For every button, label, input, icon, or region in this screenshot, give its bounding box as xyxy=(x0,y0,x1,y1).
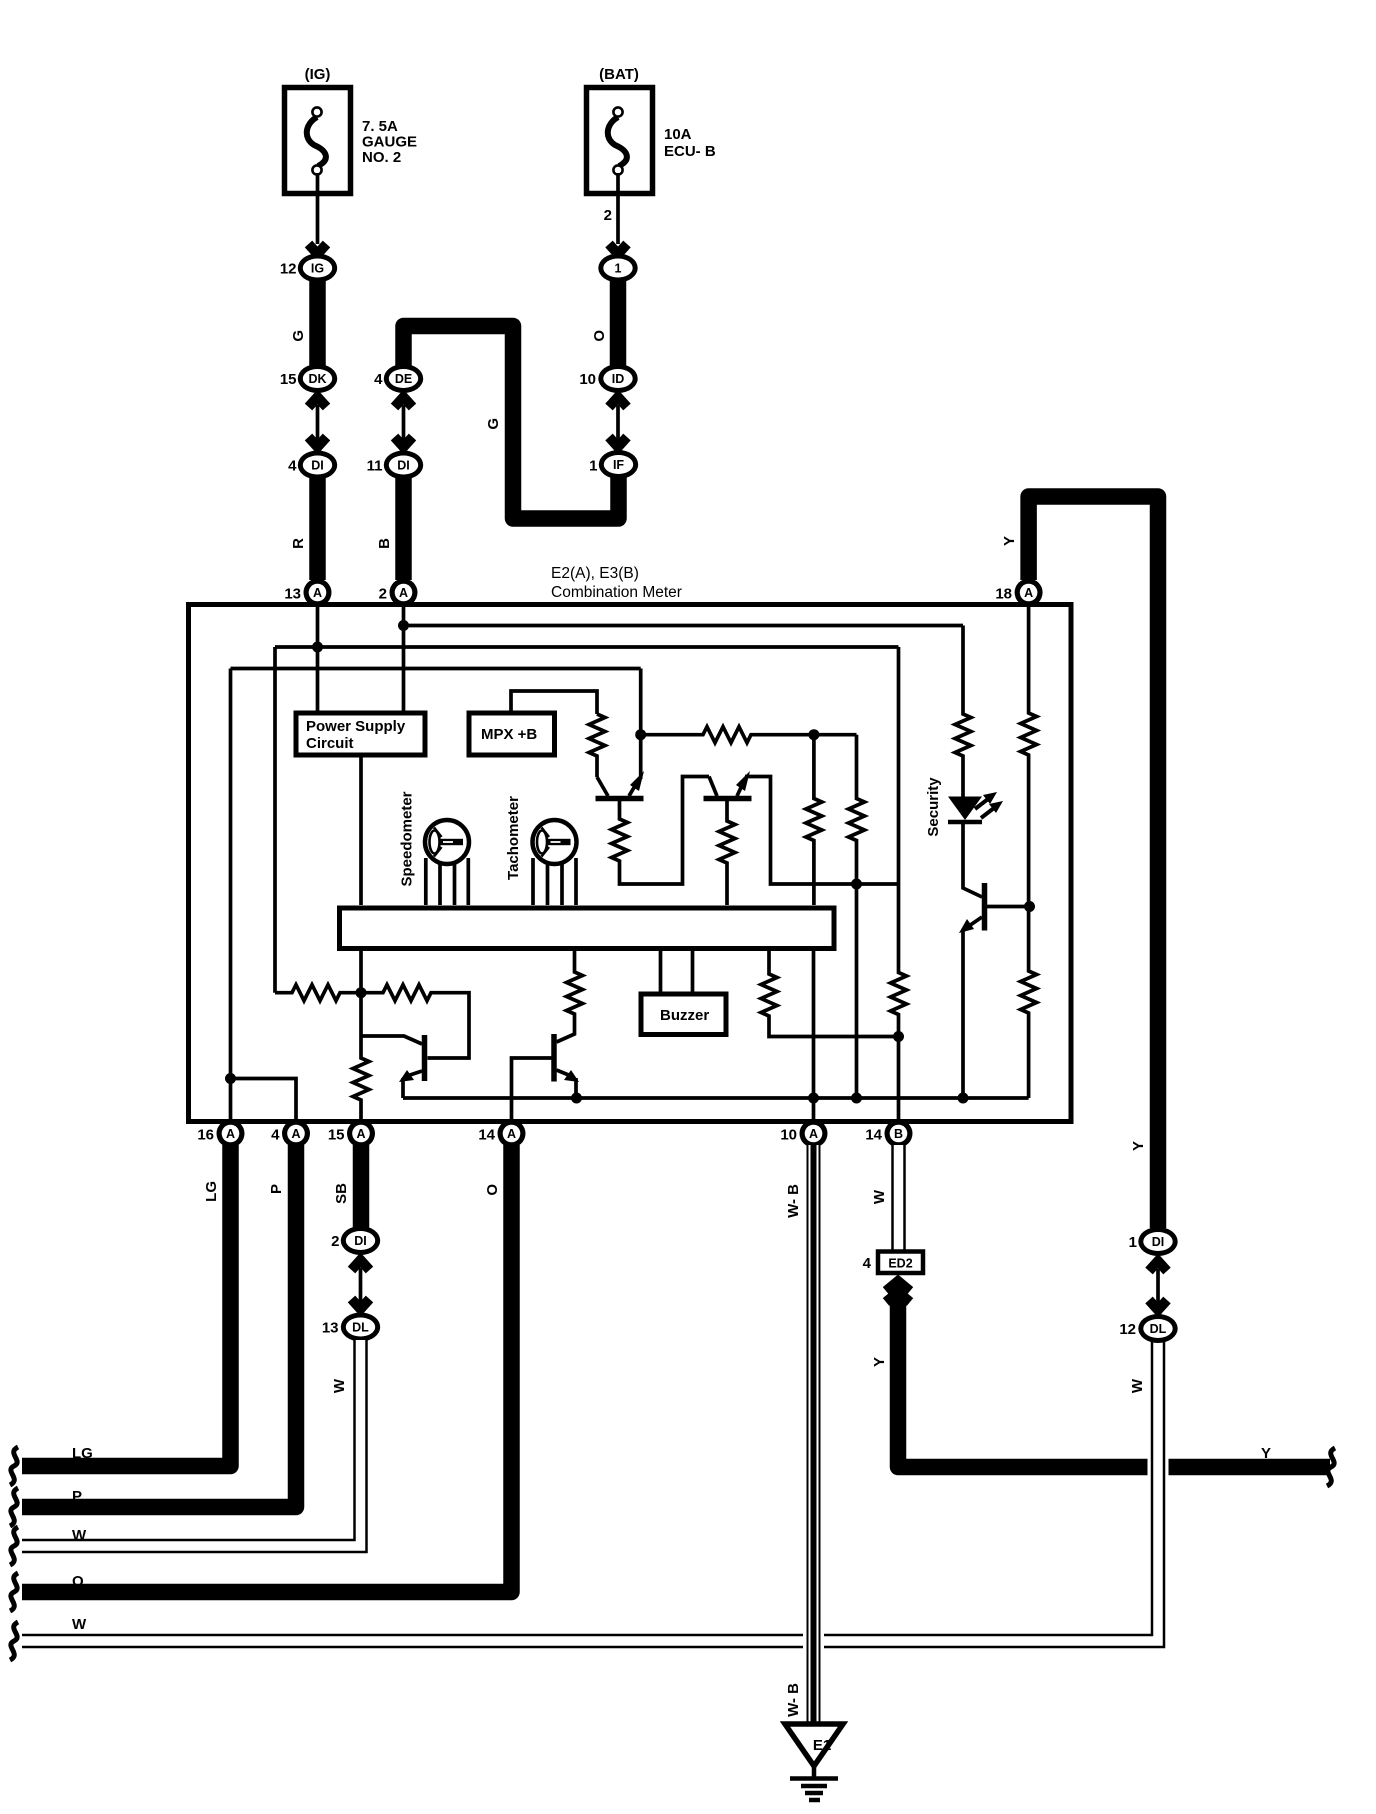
svg-text:DL: DL xyxy=(1150,1322,1167,1336)
connector DI pin 11 xyxy=(367,451,424,480)
connector A pin 18 xyxy=(995,579,1042,607)
wire left branch down to resistor row xyxy=(273,647,277,993)
svg-text:1: 1 xyxy=(589,458,597,475)
resistor R10 pin14B chain xyxy=(891,647,907,1121)
wire SB : pin15 to DI xyxy=(353,1145,370,1228)
white gap for W-B over W crossing xyxy=(803,1629,824,1653)
node pin13 junction xyxy=(312,642,323,653)
svg-text:2: 2 xyxy=(379,586,387,603)
svg-text:IG: IG xyxy=(311,262,324,276)
svg-text:7. 5A: 7. 5A xyxy=(362,118,398,135)
svg-text:(BAT): (BAT) xyxy=(599,66,639,83)
white gap for W over Y crossing xyxy=(1148,1456,1169,1478)
wire Y : ED2 down to harness right xyxy=(898,1298,1330,1467)
resistor R5 Q1 base chain to Q2 collector xyxy=(612,777,710,885)
wire O : 1 to ID xyxy=(610,280,627,366)
svg-text:MPX +B: MPX +B xyxy=(481,726,537,743)
MPX +B box U2 xyxy=(469,713,555,755)
svg-text:W: W xyxy=(72,1527,87,1544)
wire net IG horizontal to pin14B branch xyxy=(275,645,899,649)
resistor R2 horizontal xyxy=(641,727,857,743)
node R4 at emitter line xyxy=(851,879,862,890)
wire net B+ horizontal to security branch xyxy=(404,624,964,628)
svg-text:A: A xyxy=(291,1127,300,1141)
wire G : IG to DK xyxy=(309,280,326,366)
connector A pin 10 xyxy=(780,1120,827,1148)
svg-text:2: 2 xyxy=(331,1233,339,1250)
connector DL pin 12 xyxy=(1119,1314,1177,1343)
harness break squiggle LG xyxy=(10,1447,18,1485)
svg-text:1: 1 xyxy=(1129,1234,1137,1251)
svg-text:A: A xyxy=(399,586,408,600)
svg-text:Power Supply: Power Supply xyxy=(306,718,406,735)
svg-text:O: O xyxy=(484,1184,501,1196)
node R4 at ground net xyxy=(851,1093,862,1104)
wire LED to Q3 xyxy=(963,822,982,897)
wire LG : pin16 to harness xyxy=(22,1145,231,1466)
wire R : DI to meter pin 13 xyxy=(309,477,326,580)
wire MPX +B to resistor R1 xyxy=(511,691,597,714)
wire ID to IF with arrows xyxy=(609,397,627,447)
svg-text:Combination Meter: Combination Meter xyxy=(551,584,682,601)
svg-text:13: 13 xyxy=(284,586,301,603)
node pin2 junction xyxy=(398,620,409,631)
wire O : pin14 to harness xyxy=(22,1145,512,1592)
resistor R8 R9 pin18 chain xyxy=(1021,604,1037,1098)
svg-text:E2(A), E3(B): E2(A), E3(B) xyxy=(551,565,639,582)
resistor R4 with wire down to ground net xyxy=(849,735,865,1098)
svg-text:10: 10 xyxy=(780,1127,797,1144)
svg-text:GAUGE: GAUGE xyxy=(362,134,417,151)
ground E1 xyxy=(785,1724,843,1800)
svg-text:LG: LG xyxy=(203,1181,220,1202)
node Q1 emitter junction xyxy=(635,729,646,740)
svg-text:A: A xyxy=(809,1127,818,1141)
svg-text:NO. 2: NO. 2 xyxy=(362,149,401,166)
wire W : pin14B to ED2 xyxy=(891,1145,906,1251)
transistor Q5 xyxy=(512,951,583,1121)
svg-text:A: A xyxy=(1024,586,1033,600)
resistor R11 right of buzzer xyxy=(761,951,899,1037)
buzzer xyxy=(641,951,726,1035)
wire Q3 emitter down xyxy=(961,930,965,1098)
arrow into ED2 xyxy=(886,1281,910,1302)
svg-text:SB: SB xyxy=(333,1183,350,1204)
svg-text:DL: DL xyxy=(352,1321,369,1335)
connector A pin 16 xyxy=(197,1120,244,1148)
svg-text:P: P xyxy=(72,1488,82,1505)
connector DI pin 1 xyxy=(1129,1227,1178,1256)
svg-text:W- B: W- B xyxy=(785,1683,802,1717)
svg-text:A: A xyxy=(313,586,322,600)
harness break squiggle Y right xyxy=(1327,1448,1335,1486)
connector A pin 14 xyxy=(478,1120,525,1148)
svg-text:15: 15 xyxy=(328,1127,345,1144)
wire Q2 emitter to pin14B riser xyxy=(745,777,899,885)
svg-text:DE: DE xyxy=(395,372,412,386)
gauge tachometer xyxy=(533,820,577,905)
svg-text:10: 10 xyxy=(579,371,596,388)
connector IF pin 1 xyxy=(589,450,638,479)
svg-text:Circuit: Circuit xyxy=(306,735,354,752)
wire fuse to connector IG xyxy=(316,173,320,244)
wire DI to DL with arrows xyxy=(1149,1261,1167,1310)
svg-text:1: 1 xyxy=(615,262,622,276)
wire P : pin4 to harness xyxy=(22,1145,296,1507)
LED security xyxy=(948,792,1003,822)
wire branch to pin4 xyxy=(231,1079,297,1122)
svg-text:W: W xyxy=(331,1378,348,1393)
wire pin13 into power supply circuit xyxy=(316,604,320,711)
wire W : DL13 to harness xyxy=(22,1340,361,1546)
connector ED2 pin 4 xyxy=(863,1252,923,1274)
transistor Q2 xyxy=(704,771,752,799)
wire Y : meter pin 18 up and over to DI xyxy=(1029,497,1158,1229)
svg-text:A: A xyxy=(226,1127,235,1141)
wire bus bar to pin10 xyxy=(812,951,816,1121)
wire DI to DL with arrows xyxy=(352,1260,370,1309)
svg-text:Y: Y xyxy=(1130,1141,1147,1151)
svg-text:B: B xyxy=(376,538,393,549)
node Q5 emitter at ground net xyxy=(571,1093,582,1104)
wire power supply to bus bar xyxy=(359,758,363,906)
wire pin 2 fuse to connector 1 xyxy=(616,173,620,244)
svg-text:4: 4 xyxy=(863,1255,872,1272)
harness break squiggle P xyxy=(10,1488,18,1526)
svg-text:G: G xyxy=(485,418,502,430)
svg-text:DI: DI xyxy=(1152,1235,1165,1249)
combination meter box xyxy=(189,605,1072,1122)
svg-text:4: 4 xyxy=(374,371,383,388)
svg-text:15: 15 xyxy=(280,371,297,388)
svg-text:DI: DI xyxy=(397,459,410,473)
node Q3 base junction xyxy=(1024,901,1035,912)
svg-text:(IG): (IG) xyxy=(305,66,331,83)
svg-text:W: W xyxy=(72,1616,87,1633)
svg-text:18: 18 xyxy=(995,586,1012,603)
svg-text:A: A xyxy=(507,1127,516,1141)
svg-text:Y: Y xyxy=(871,1357,888,1367)
connector 1 xyxy=(598,254,637,283)
transistor Q4 xyxy=(361,1035,425,1098)
fuse 10A ECU-B xyxy=(587,88,653,194)
connector A pin 2 xyxy=(379,579,418,607)
svg-text:14: 14 xyxy=(865,1127,882,1144)
svg-text:13: 13 xyxy=(322,1320,339,1337)
wire W : DL12 down and across to harness xyxy=(22,1341,1158,1641)
node pin10 at ground net xyxy=(808,1093,819,1104)
harness break squiggle O xyxy=(10,1573,18,1611)
svg-text:12: 12 xyxy=(280,261,297,278)
power supply circuit U1 xyxy=(296,713,425,755)
gauge speedometer xyxy=(425,820,469,905)
resistor R6 Q2 base to bus bar xyxy=(719,800,735,905)
harness break squiggle W xyxy=(10,1527,18,1565)
svg-text:11: 11 xyxy=(367,458,383,475)
bus bar xyxy=(340,908,835,949)
wire DE to DI with arrows xyxy=(395,397,413,447)
svg-text:12: 12 xyxy=(1119,1321,1136,1338)
svg-text:Security: Security xyxy=(925,777,942,837)
wire pin2 into power supply circuit xyxy=(402,604,406,711)
connector DI pin 4 xyxy=(288,451,337,480)
wire net E horizontal xyxy=(231,667,641,671)
svg-text:DI: DI xyxy=(354,1234,367,1248)
wire B : DI to meter pin 2 xyxy=(395,477,412,580)
svg-text:16: 16 xyxy=(197,1127,214,1144)
connector A pin 13 xyxy=(284,579,331,607)
wire ground net horizontal xyxy=(403,1096,1029,1100)
node R2 right junction xyxy=(808,729,819,740)
svg-text:G: G xyxy=(290,330,307,342)
connector DK pin 15 xyxy=(280,364,337,393)
svg-text:DI: DI xyxy=(311,459,324,473)
svg-text:10A: 10A xyxy=(664,126,692,143)
svg-text:W: W xyxy=(1129,1378,1146,1393)
wire G : DE to IF U-route xyxy=(404,326,619,519)
svg-text:Speedometer: Speedometer xyxy=(399,791,416,886)
resistor R13 R14 row with Q4 base corner xyxy=(275,985,469,1058)
connector B pin 14 xyxy=(865,1120,912,1148)
svg-text:E1: E1 xyxy=(813,1737,831,1754)
svg-text:O: O xyxy=(591,330,608,342)
resistor R7 security branch xyxy=(955,626,971,798)
connector IG pin 12 xyxy=(280,254,337,283)
connector DE pin 4 xyxy=(374,364,423,393)
transistor Q1 xyxy=(596,771,645,799)
connector DI pin 2 xyxy=(331,1226,380,1255)
connector A pin 4 xyxy=(271,1120,310,1148)
wire pin16 riser xyxy=(229,669,233,1122)
connector DL pin 13 xyxy=(322,1313,380,1342)
svg-text:Y: Y xyxy=(1261,1445,1271,1462)
svg-text:W- B: W- B xyxy=(785,1184,802,1218)
svg-text:P: P xyxy=(268,1184,285,1194)
transistor Q3 xyxy=(959,883,1030,933)
connector A pin 15 xyxy=(328,1120,375,1148)
wire W-B : pin10 to ground E1 xyxy=(807,1145,821,1725)
svg-text:O: O xyxy=(72,1573,84,1590)
harness break squiggle W bottom xyxy=(10,1622,18,1660)
node pin14B junction xyxy=(893,1031,904,1042)
svg-text:IF: IF xyxy=(613,458,624,472)
node resistor row junction xyxy=(356,987,367,998)
svg-text:DK: DK xyxy=(308,372,326,386)
svg-text:4: 4 xyxy=(288,458,297,475)
wire DK to DI with arrows xyxy=(309,397,327,447)
svg-text:Buzzer: Buzzer xyxy=(660,1007,709,1024)
svg-text:A: A xyxy=(356,1127,365,1141)
svg-text:B: B xyxy=(894,1127,903,1141)
svg-text:ED2: ED2 xyxy=(888,1257,912,1271)
node Q3 emitter at ground net xyxy=(958,1093,969,1104)
wire bus bar to pin15 chain with resistor R12 xyxy=(353,951,369,1121)
svg-text:2: 2 xyxy=(604,207,612,224)
node pin16 branch junction xyxy=(225,1073,236,1084)
svg-text:R: R xyxy=(290,538,307,549)
resistor R1 xyxy=(589,714,605,777)
svg-text:Y: Y xyxy=(1001,536,1018,546)
connector ID pin 10 xyxy=(579,364,637,393)
wire Q1 emitter riser xyxy=(639,669,643,780)
svg-text:14: 14 xyxy=(478,1127,495,1144)
fuse 7.5A GAUGE NO.2 xyxy=(285,88,351,194)
resistor R3 with wire to bus bar top xyxy=(806,735,822,905)
svg-text:ECU- B: ECU- B xyxy=(664,143,716,160)
svg-text:W: W xyxy=(871,1189,888,1204)
svg-text:ID: ID xyxy=(612,372,625,386)
svg-text:Tachometer: Tachometer xyxy=(505,796,522,880)
svg-text:LG: LG xyxy=(72,1445,93,1462)
svg-text:4: 4 xyxy=(271,1127,280,1144)
